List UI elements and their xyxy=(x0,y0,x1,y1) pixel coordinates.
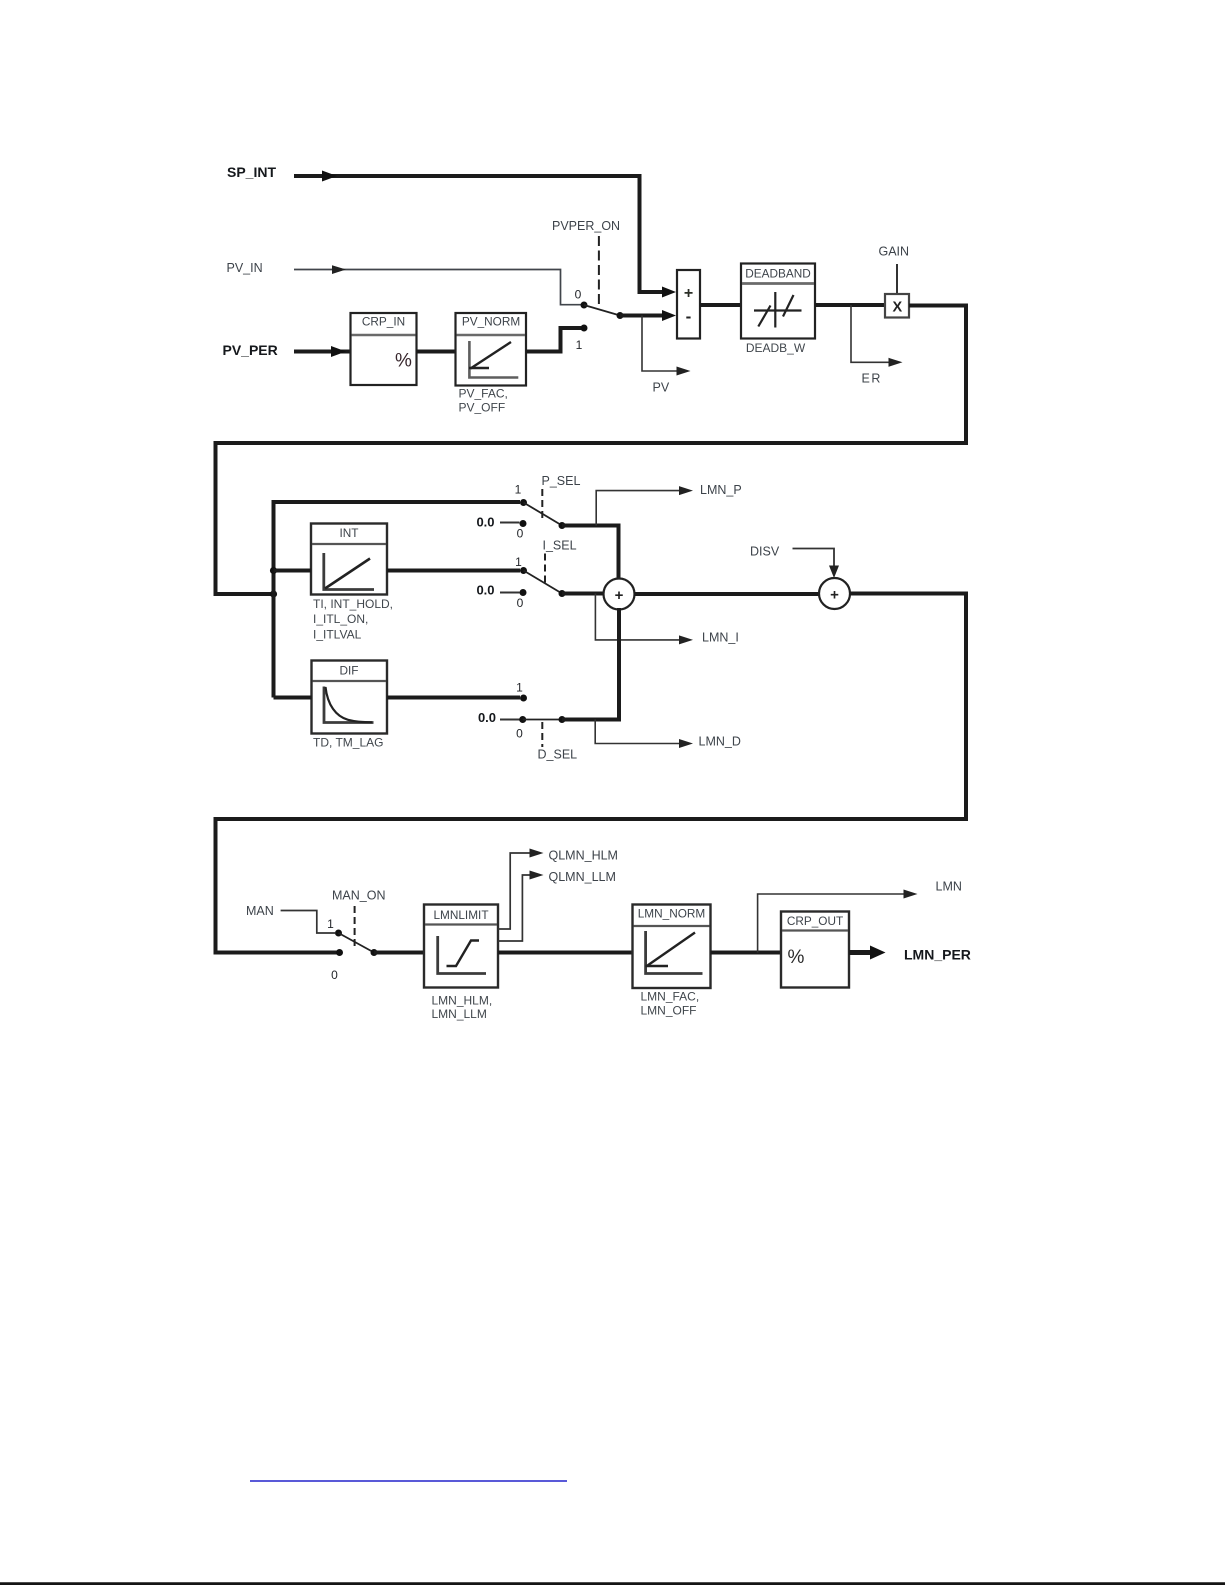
wire INT input xyxy=(274,569,312,573)
wire QLMN_HLM xyxy=(498,849,544,930)
value labels LMN_FAC LMN_OFF xyxy=(641,990,700,1018)
wire DIF output xyxy=(387,696,520,700)
wire PV_IN to switch position 0 xyxy=(294,265,581,304)
node D_SEL pos1 xyxy=(516,681,527,702)
block INT xyxy=(311,524,387,595)
wire X output right and down to mid loop xyxy=(216,306,967,595)
label GAIN xyxy=(879,245,910,259)
summing circle DISV xyxy=(819,578,850,609)
wire PV tap xyxy=(642,316,691,376)
svg-text:TI, INT_HOLD,: TI, INT_HOLD, xyxy=(313,597,393,611)
label PV xyxy=(653,381,670,395)
switch lever P_SEL xyxy=(524,503,566,530)
wire DISV input xyxy=(793,549,840,579)
wire DISV sum output right down and bottom loop xyxy=(216,594,967,953)
node INT input junction xyxy=(270,567,277,574)
wire DEADBAND to GAIN multiplier xyxy=(815,303,885,307)
wire SP_INT to summer plus input xyxy=(294,171,676,298)
svg-text:LMN_D: LMN_D xyxy=(699,735,741,749)
dashed control line I_SEL xyxy=(544,554,546,584)
wire switch to summer minus input xyxy=(620,310,676,321)
wire inner vertical distribution xyxy=(272,502,276,698)
svg-text:0.0: 0.0 xyxy=(478,710,496,725)
wire I common to sum xyxy=(562,592,603,596)
svg-text:0: 0 xyxy=(517,596,524,610)
svg-text:LMN_I: LMN_I xyxy=(702,631,739,645)
label 0.0 for P xyxy=(476,515,494,530)
value labels LMN_HLM LMN_LLM xyxy=(432,994,493,1022)
svg-text:GAIN: GAIN xyxy=(879,245,910,259)
svg-text:+: + xyxy=(684,285,693,302)
svg-text:LMN_OFF: LMN_OFF xyxy=(641,1004,697,1018)
svg-text:LMN_HLM,: LMN_HLM, xyxy=(432,994,493,1008)
svg-text:P_SEL: P_SEL xyxy=(542,474,581,488)
wire LMN_D tap xyxy=(595,720,693,749)
svg-text:%: % xyxy=(788,947,805,968)
node P_SEL pos1 xyxy=(515,483,527,507)
svg-text:PV_PER: PV_PER xyxy=(223,342,278,358)
wire CRP_OUT output LMN_PER xyxy=(849,946,886,960)
label D_SEL xyxy=(538,748,578,762)
block DIF xyxy=(312,661,388,734)
wire P common to sum xyxy=(562,526,619,581)
svg-text:%: % xyxy=(395,351,412,372)
label MAN_ON xyxy=(332,889,385,903)
node D_SEL pos0 xyxy=(516,716,526,741)
svg-text:QLMN_HLM: QLMN_HLM xyxy=(549,849,618,863)
label LMN_I xyxy=(702,631,739,645)
svg-text:CRP_OUT: CRP_OUT xyxy=(787,914,843,928)
svg-text:PV_OFF: PV_OFF xyxy=(459,401,506,415)
switch lever I_SEL xyxy=(524,571,566,598)
svg-text:1: 1 xyxy=(516,681,523,695)
wire LMN tap xyxy=(758,890,918,953)
label MAN xyxy=(246,904,274,918)
node switch pos0 xyxy=(575,288,588,309)
wire ER tap xyxy=(851,305,903,367)
wire LMN_I tap xyxy=(595,594,693,645)
svg-text:PV_IN: PV_IN xyxy=(227,261,263,275)
label I_SEL xyxy=(543,539,577,553)
dashed control line PVPER_ON xyxy=(598,236,600,308)
svg-text:DISV: DISV xyxy=(750,545,780,559)
dashed control line MAN_ON xyxy=(354,906,356,948)
svg-text:PV_NORM: PV_NORM xyxy=(462,315,520,329)
value labels PV_FAC PV_OFF xyxy=(459,387,508,415)
svg-text:X: X xyxy=(892,300,902,316)
summing circle PID xyxy=(604,579,635,610)
svg-text:D_SEL: D_SEL xyxy=(538,748,578,762)
label SP_INT xyxy=(227,164,276,180)
node I_SEL pos1 xyxy=(515,555,527,574)
svg-text:0: 0 xyxy=(575,288,582,302)
svg-text:PV_FAC,: PV_FAC, xyxy=(459,387,508,401)
svg-text:INT: INT xyxy=(339,526,358,540)
svg-text:TD, TM_LAG: TD, TM_LAG xyxy=(313,736,383,750)
svg-text:MAN: MAN xyxy=(246,904,274,918)
label QLMN_HLM xyxy=(549,849,618,863)
svg-text:0.0: 0.0 xyxy=(476,583,494,598)
switch lever PVPER xyxy=(584,305,624,319)
node P_SEL pos0 xyxy=(517,520,527,541)
svg-text:0: 0 xyxy=(331,968,338,982)
node MAN_ON pos1 xyxy=(327,917,342,937)
node switch pos1 xyxy=(576,325,588,353)
svg-text:LMN_FAC,: LMN_FAC, xyxy=(641,990,700,1004)
dashed control line D_SEL xyxy=(541,722,543,747)
block PV_NORM xyxy=(456,313,527,386)
value labels TI INT_HOLD I_ITL_ON I_ITLVAL xyxy=(313,597,393,642)
svg-text:MAN_ON: MAN_ON xyxy=(332,889,385,903)
footnote rule xyxy=(250,1480,567,1482)
svg-text:PV: PV xyxy=(653,381,670,395)
svg-text:DEADBAND: DEADBAND xyxy=(745,267,811,281)
svg-text:DIF: DIF xyxy=(339,664,358,678)
svg-text:SP_INT: SP_INT xyxy=(227,164,276,180)
label P_SEL xyxy=(542,474,581,488)
svg-text:LMN_P: LMN_P xyxy=(700,483,742,497)
svg-text:QLMN_LLM: QLMN_LLM xyxy=(549,870,616,884)
svg-text:I_ITL_ON,: I_ITL_ON, xyxy=(313,612,368,626)
svg-text:PVPER_ON: PVPER_ON xyxy=(552,219,620,233)
wire I zero stub xyxy=(500,592,520,594)
svg-text:-: - xyxy=(686,307,692,326)
svg-text:ER: ER xyxy=(862,372,882,386)
label LMN_D xyxy=(699,735,741,749)
control line GAIN xyxy=(896,264,898,293)
wire LMNLIMIT to LMN_NORM xyxy=(498,951,633,955)
switch lever MAN_ON xyxy=(339,933,378,956)
block CRP_IN xyxy=(351,313,417,385)
block CRP_OUT xyxy=(781,912,849,988)
wire PV_NORM to switch position 1 xyxy=(526,328,581,352)
summer plus minus box xyxy=(677,270,700,339)
label ER xyxy=(862,372,882,386)
wire D common to sum xyxy=(562,608,619,720)
svg-text:1: 1 xyxy=(515,483,522,497)
svg-text:0: 0 xyxy=(516,727,523,741)
svg-text:0: 0 xyxy=(517,527,524,541)
svg-text:LMNLIMIT: LMNLIMIT xyxy=(433,908,488,922)
wire INT output xyxy=(387,569,520,573)
block LMNLIMIT xyxy=(424,905,498,988)
wire PV_PER to CRP_IN xyxy=(294,346,351,357)
label PV_PER xyxy=(223,342,278,358)
wire P branch xyxy=(272,500,521,504)
svg-text:LMN: LMN xyxy=(936,880,962,894)
value label TD TM_LAG xyxy=(313,736,383,750)
svg-text:I_SEL: I_SEL xyxy=(543,539,577,553)
label LMN xyxy=(936,880,962,894)
node I_SEL pos0 xyxy=(517,589,527,610)
svg-text:LMN_PER: LMN_PER xyxy=(904,947,971,963)
svg-text:+: + xyxy=(615,587,624,604)
wire DIF input xyxy=(274,696,312,700)
node MAN_ON pos0 xyxy=(331,949,343,982)
svg-text:1: 1 xyxy=(327,917,334,931)
wire LMN_NORM to CRP_OUT xyxy=(711,951,782,955)
block DEADBAND xyxy=(741,264,815,339)
wire D zero stub xyxy=(500,719,520,721)
dashed control line P_SEL xyxy=(541,489,543,519)
label 0.0 for D xyxy=(478,710,496,725)
block LMN_NORM xyxy=(633,905,711,989)
label LMN_PER xyxy=(904,947,971,963)
label 0.0 for I xyxy=(476,583,494,598)
page bottom rule xyxy=(0,1582,1225,1585)
label PV_IN xyxy=(227,261,263,275)
wire sum to DISV sum xyxy=(635,592,820,596)
label QLMN_LLM xyxy=(549,870,616,884)
wire QLMN_LLM xyxy=(498,871,544,942)
wire LMN_P tap xyxy=(596,486,693,525)
svg-text:LMN_NORM: LMN_NORM xyxy=(638,907,706,921)
svg-text:I_ITLVAL: I_ITLVAL xyxy=(313,628,362,642)
multiplier X box xyxy=(885,294,909,318)
switch lever D_SEL xyxy=(523,716,566,723)
label PVPER_ON xyxy=(552,219,620,233)
svg-text:CRP_IN: CRP_IN xyxy=(362,315,405,329)
label LMN_P xyxy=(700,483,742,497)
wire summer to DEADBAND xyxy=(700,303,741,307)
svg-text:1: 1 xyxy=(515,555,522,569)
label DISV xyxy=(750,545,780,559)
svg-text:DEADB_W: DEADB_W xyxy=(746,341,806,355)
svg-text:+: + xyxy=(830,587,839,604)
svg-text:LMN_LLM: LMN_LLM xyxy=(432,1007,487,1021)
value label DEADB_W xyxy=(746,341,806,355)
wire P zero stub xyxy=(500,522,520,524)
node junction loop to inner vertical xyxy=(270,590,277,597)
wire CRP_IN to PV_NORM xyxy=(417,350,456,354)
svg-text:1: 1 xyxy=(576,338,583,352)
wire switch to LMNLIMIT xyxy=(374,951,424,955)
wire MAN to switch pos1 xyxy=(281,911,335,934)
svg-text:0.0: 0.0 xyxy=(476,515,494,530)
